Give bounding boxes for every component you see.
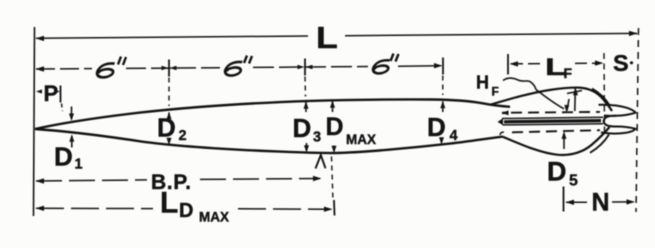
svg-text:2: 2 xyxy=(179,128,187,144)
svg-text:D: D xyxy=(293,113,312,143)
svg-text:5: 5 xyxy=(569,173,578,190)
svg-text:D: D xyxy=(326,113,344,141)
svg-text:3: 3 xyxy=(313,130,321,146)
svg-text:F: F xyxy=(492,85,499,99)
svg-text:P: P xyxy=(44,81,59,106)
svg-text:L: L xyxy=(160,187,178,220)
svg-text:D: D xyxy=(157,113,176,143)
svg-text:4: 4 xyxy=(450,128,458,144)
svg-text:F: F xyxy=(564,65,573,81)
svg-text:L: L xyxy=(316,21,338,55)
svg-text:S: S xyxy=(613,50,629,76)
svg-text:H: H xyxy=(476,73,489,93)
svg-text:D: D xyxy=(547,157,567,187)
svg-text:MAX: MAX xyxy=(199,210,229,225)
svg-text:D: D xyxy=(54,142,73,172)
svg-text:D: D xyxy=(179,200,193,222)
svg-text:1: 1 xyxy=(75,157,83,173)
svg-text:MAX: MAX xyxy=(346,132,376,147)
svg-text:N: N xyxy=(592,189,610,217)
